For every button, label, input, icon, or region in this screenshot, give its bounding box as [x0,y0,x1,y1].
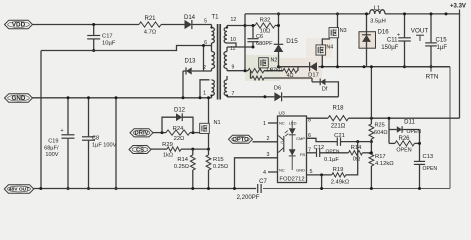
pin 1 stub [268,122,278,124]
junction D13 gnd [182,96,185,99]
svg-text:NC: NC [279,168,285,173]
svg-text:0.25Ω: 0.25Ω [174,164,189,170]
svg-text:150µF: 150µF [381,45,399,51]
wire VDD rail [33,24,140,26]
junction R24 right [192,131,195,134]
svg-text:D11: D11 [404,119,415,125]
junction C13 bottom [418,187,421,190]
capacitor C21 [336,137,338,145]
wire D11 branch drop [388,118,390,143]
svg-text:GND: GND [296,168,305,173]
wire pin7 row [307,152,317,154]
svg-text:NC: NC [279,121,285,126]
junction R17 bottom [370,187,373,190]
svg-text:D14: D14 [184,15,196,21]
wire pin8 row [307,117,329,119]
svg-text:4.12kΩ: 4.12kΩ [375,161,394,167]
svg-text:1kΩ: 1kΩ [163,152,173,158]
junction pin5 node [320,173,323,176]
winding T1 sec top [224,28,227,44]
wire D13 drop [182,71,184,98]
svg-text:C21: C21 [334,133,345,139]
resistor R29 [167,147,181,151]
svg-text:C12: C12 [314,145,325,151]
junction pin3 bottom [233,187,236,190]
svg-text:1µF 100V: 1µF 100V [92,143,117,149]
junction C17 top [92,23,95,26]
wire Df corner [326,82,339,97]
terminal VDD [5,20,33,29]
svg-text:CMP: CMP [296,136,305,141]
wire sec gnd row [227,96,274,98]
node VOUT testpoint [416,34,424,36]
svg-text:2: 2 [203,65,206,71]
wire RTN drop [449,67,451,189]
resistor R14 fb [349,151,363,155]
svg-text:2,200PF: 2,200PF [237,195,260,201]
winding T1 primary bot [212,80,215,96]
svg-text:LED: LED [289,121,297,126]
svg-text:R17: R17 [375,154,386,160]
svg-text:C8: C8 [92,136,99,142]
wire bulk branch [115,98,117,189]
diode D16 box [359,32,376,49]
svg-text:C7: C7 [259,179,267,185]
terminal OPTO [229,135,253,143]
junction C17 bottom [92,49,95,52]
terminal DRIV [130,129,153,137]
transistor N4 [316,45,326,55]
svg-text:U3: U3 [279,111,286,117]
wire pin11 row [227,46,253,48]
junction bulk top [115,96,118,99]
transistor N1 [200,123,210,133]
junction R25 rail [370,65,373,68]
junction aux top [445,12,448,15]
junction CS-R14 [191,148,194,151]
svg-text:4: 4 [263,170,266,176]
junction C11 top [403,12,406,15]
wire lower branch [251,71,253,78]
wire C19 branch [67,98,69,135]
wire top rail [245,13,370,15]
svg-text:R14: R14 [177,157,188,163]
svg-text:VDD: VDD [12,22,26,29]
junction bottom-left [39,187,42,190]
svg-text:3: 3 [267,152,270,158]
opto phototransistor [283,136,285,152]
winding T1 primary top [212,28,215,44]
resistor R24 [166,130,190,135]
junction D15 top rail [277,12,280,15]
winding T1 sec mid [224,52,227,69]
terminal GND [5,94,33,103]
winding T1 primary mid [212,52,215,69]
junction N1 drain [207,96,210,99]
svg-text:T1: T1 [211,14,219,20]
terminal CS [129,146,151,154]
svg-text:0Ω: 0Ω [353,156,361,162]
diode D14 [185,20,192,29]
junction C19 bottom [67,187,70,190]
svg-text:5: 5 [310,169,313,175]
wire pin9 row [227,70,248,72]
svg-text:R32: R32 [260,17,271,23]
svg-text:5: 5 [204,19,207,25]
svg-text:C19: C19 [48,139,58,145]
wire pin9 jog [297,67,299,71]
resistor R21 [139,22,161,27]
junction R14 bottom [191,187,194,190]
capacitor C8 [82,136,95,138]
svg-text:9: 9 [232,65,235,71]
svg-text:R29: R29 [162,142,173,148]
svg-text:221Ω: 221Ω [331,123,346,129]
svg-text:D6: D6 [274,86,281,92]
svg-text:4.7Ω: 4.7Ω [144,30,157,36]
power +3.3V [459,10,461,15]
resistor R15 sense [208,149,210,155]
svg-text:3.5µH: 3.5µH [370,18,386,24]
wire pin10 jog [227,43,236,47]
wire pin6 row [307,138,338,141]
diode D12 [176,113,182,121]
capacitor C12 [316,149,318,157]
resistor lower snubber [252,76,264,80]
transistor N2 [259,58,269,68]
junction sec gnd [263,95,266,98]
wire pin5 row [307,174,332,176]
diode D11 [389,129,397,131]
svg-text:OPEN: OPEN [326,149,340,155]
resistor R36 [248,69,264,73]
diode D16 [362,35,371,42]
svg-text:VOUT: VOUT [411,28,429,35]
svg-text:D12: D12 [174,107,186,113]
diode D15 [274,44,284,52]
wire pin3 row [235,158,278,189]
junction C8 top [87,96,90,99]
wire RTN bottom [263,188,450,190]
svg-text:C6: C6 [256,34,263,40]
junction pin6 node [202,44,205,47]
junction R14 fb right [370,151,373,154]
svg-text:0.25Ω: 0.25Ω [213,164,228,170]
capacitor C17 [87,35,100,37]
capacitor C13 [414,160,425,162]
junction CS-N1 [207,148,210,151]
transformer T1 core [217,24,219,100]
svg-text:C: C [281,140,284,145]
svg-text:10µF: 10µF [102,41,116,47]
capacitor C15 [430,14,432,43]
junction C11 bottom [403,65,406,68]
svg-text:68µF/: 68µF/ [44,145,59,151]
svg-text:R24: R24 [173,126,184,132]
wire +3.3V drop [459,14,461,118]
svg-text:R14: R14 [351,145,362,151]
wire bottom rail left [34,188,256,190]
svg-text:1: 1 [203,90,206,96]
wire D11 right drop [419,130,421,161]
wire mid rail [41,46,212,51]
svg-text:R21: R21 [144,16,156,22]
junction pin9 riser [244,69,247,72]
diode D13 [186,67,192,74]
diode D17 [310,62,317,71]
svg-text:R18: R18 [332,105,344,111]
svg-text:FOD2712: FOD2712 [279,177,304,183]
junction DRIV node [161,131,164,134]
wire D13 row [192,70,212,72]
svg-text:OPTO: OPTO [232,137,249,143]
junction C6 top [252,24,255,27]
svg-text:R25: R25 [375,123,385,129]
junction D11 rail [388,117,391,120]
junction D16 bottom [363,65,366,68]
junction C15 top [430,12,433,15]
svg-text:R19: R19 [333,167,344,173]
svg-text:2.49kΩ: 2.49kΩ [331,179,350,185]
svg-text:C13: C13 [423,154,434,160]
capacitor C7 [257,184,259,193]
svg-text:C15: C15 [436,37,448,43]
svg-text:OPEN: OPEN [423,166,438,172]
svg-text:2: 2 [267,136,270,142]
diode Df [320,79,325,86]
svg-text:R15: R15 [213,157,224,163]
resistor R26 [389,142,395,144]
node RTN stub [430,67,432,72]
wire D16 top [366,14,368,32]
wire DRIV row [153,132,166,134]
wire RTN row [405,66,451,68]
capacitor C19 [62,134,75,136]
resistor R17 [370,142,372,152]
capacitor C11 [404,14,406,37]
wire left drop [40,51,42,189]
svg-text:1µF: 1µF [437,45,448,51]
svg-text:D13: D13 [184,59,196,65]
svg-text:C11: C11 [387,37,398,43]
svg-text:N2: N2 [271,58,278,64]
junction D15 bottom [277,65,280,68]
svg-text:10: 10 [230,37,236,43]
svg-text:Df: Df [322,86,328,92]
junction N3 top [336,12,339,15]
wire pin1 link [200,80,210,98]
junction C15 bottom [430,65,433,68]
wire pin12 row [227,25,245,27]
junction R25 top [370,117,373,120]
opto LED symbol [289,128,296,134]
inductor L1 [370,10,386,14]
resistor R32 [245,25,255,27]
svg-text:CS: CS [136,147,144,153]
junction R25 bottom [370,140,373,143]
resistor R18 [328,116,349,121]
junction C21 row [356,140,359,143]
junction C6 bottom [252,46,255,49]
junction R32 right [277,24,280,27]
svg-text:6: 6 [204,40,207,46]
svg-text:N4: N4 [326,45,333,51]
svg-text:22Ω: 22Ω [174,136,185,142]
wire C8 branch [88,98,90,137]
svg-text:D16: D16 [378,30,390,36]
junction D16 top [365,12,368,15]
junction pin1 gnd [199,96,202,99]
svg-text:D15: D15 [286,38,298,45]
wire GND rail [33,97,212,99]
wire secondary rail [279,66,310,68]
svg-text:R26: R26 [398,136,410,142]
svg-text:48V OUT: 48V OUT [9,187,29,193]
wire R25 riser [370,67,372,119]
svg-text:7: 7 [232,91,235,97]
svg-text:L1: L1 [374,6,381,12]
wire D12 branch [162,117,176,132]
resistor R30 [283,69,297,73]
svg-text:FB: FB [300,152,305,157]
svg-text:RTN: RTN [426,73,439,80]
svg-text:+: + [60,128,63,134]
svg-text:GND: GND [12,95,26,102]
wire OPTO row [253,141,278,143]
opto FB amp symbol [289,149,296,155]
junction C19 top [67,96,70,99]
pin 4 stub [268,171,278,173]
svg-text:N1: N1 [214,120,221,126]
svg-text:C17: C17 [102,34,113,40]
winding T1 sec bot [224,80,227,96]
svg-text:1.87kΩ: 1.87kΩ [266,68,283,74]
junction C8 bottom [87,187,90,190]
junction R26 right [418,142,421,145]
diode D6 [274,92,281,101]
wire D16 bottom [366,48,368,66]
svg-text:604Ω: 604Ω [374,130,388,136]
svg-text:100V: 100V [45,152,58,158]
svg-text:1: 1 [263,121,266,127]
resistor R14 sense [192,149,194,155]
svg-text:0.1µF: 0.1µF [324,157,339,163]
junction T1 dots [210,26,212,28]
transistor N3 [329,28,339,38]
resistor R19 [332,173,346,177]
junction N4 bottom [321,65,324,68]
ic U3 FOD2712 box [278,116,307,183]
capacitor C6 [252,26,254,39]
svg-text:DRIV: DRIV [135,131,149,137]
svg-text:+3.3V: +3.3V [450,4,466,10]
wire C17 branch [93,25,95,36]
wire pin2 tap [203,46,205,72]
wire pin5 drop [321,175,323,189]
wire sec top riser [244,14,246,71]
svg-text:N3: N3 [340,28,347,34]
junction bulk bottom [115,187,118,190]
svg-text:12: 12 [231,17,237,23]
junction R15 bottom [207,187,210,190]
svg-text:OPEN: OPEN [396,147,411,153]
terminal 48V OUT [4,185,34,193]
junction N3 bottom [336,65,339,68]
junction pin5 bottom [320,187,323,190]
node pin12 junction [244,24,247,27]
svg-text:680PF: 680PF [256,41,273,47]
wire D15 riser [278,14,280,44]
resistor R25 [370,118,372,124]
wire CS row [151,148,167,150]
